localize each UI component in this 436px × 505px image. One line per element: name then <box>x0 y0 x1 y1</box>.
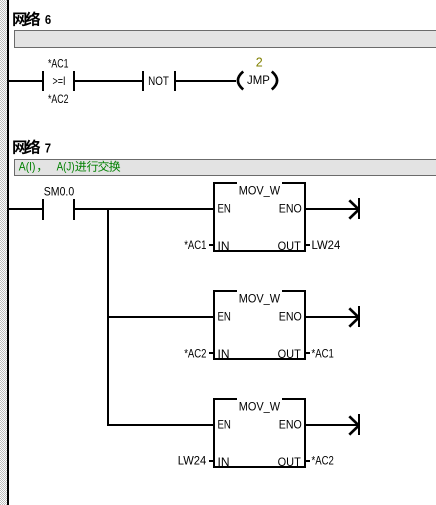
svg-text:OUT: OUT <box>278 239 302 253</box>
svg-text:IN: IN <box>218 239 230 253</box>
svg-text:MOV_W: MOV_W <box>239 291 281 305</box>
svg-text:EN: EN <box>218 202 231 216</box>
svg-text:*AC1: *AC1 <box>312 346 335 360</box>
svg-text:2: 2 <box>256 55 263 69</box>
svg-text:JMP: JMP <box>247 73 270 87</box>
svg-text:LW24: LW24 <box>312 238 341 252</box>
svg-text:MOV_W: MOV_W <box>239 399 281 413</box>
svg-text:ENO: ENO <box>279 202 302 216</box>
svg-text:OUT: OUT <box>278 455 302 469</box>
svg-text:A(J): A(J) <box>57 160 75 174</box>
svg-text:*AC1: *AC1 <box>48 56 69 70</box>
svg-text:7: 7 <box>45 141 51 156</box>
svg-text:MOV_W: MOV_W <box>239 183 281 197</box>
svg-text:IN: IN <box>218 455 230 469</box>
svg-text:OUT: OUT <box>278 347 302 361</box>
svg-text:ENO: ENO <box>279 310 302 324</box>
svg-text:IN: IN <box>218 347 230 361</box>
svg-text:*AC1: *AC1 <box>184 238 207 252</box>
svg-text:LW24: LW24 <box>178 454 207 468</box>
svg-text:*AC2: *AC2 <box>48 92 69 106</box>
svg-text:ENO: ENO <box>279 418 302 432</box>
svg-text:A(I): A(I) <box>19 160 36 174</box>
svg-text:NOT: NOT <box>148 74 169 88</box>
svg-text:*AC2: *AC2 <box>312 454 335 468</box>
svg-text:*AC2: *AC2 <box>184 346 207 360</box>
svg-text:SM0.0: SM0.0 <box>44 185 75 199</box>
svg-text:EN: EN <box>218 418 231 432</box>
svg-text:6: 6 <box>45 12 51 27</box>
svg-text:EN: EN <box>218 310 231 324</box>
svg-text:>=I: >=I <box>53 74 66 88</box>
